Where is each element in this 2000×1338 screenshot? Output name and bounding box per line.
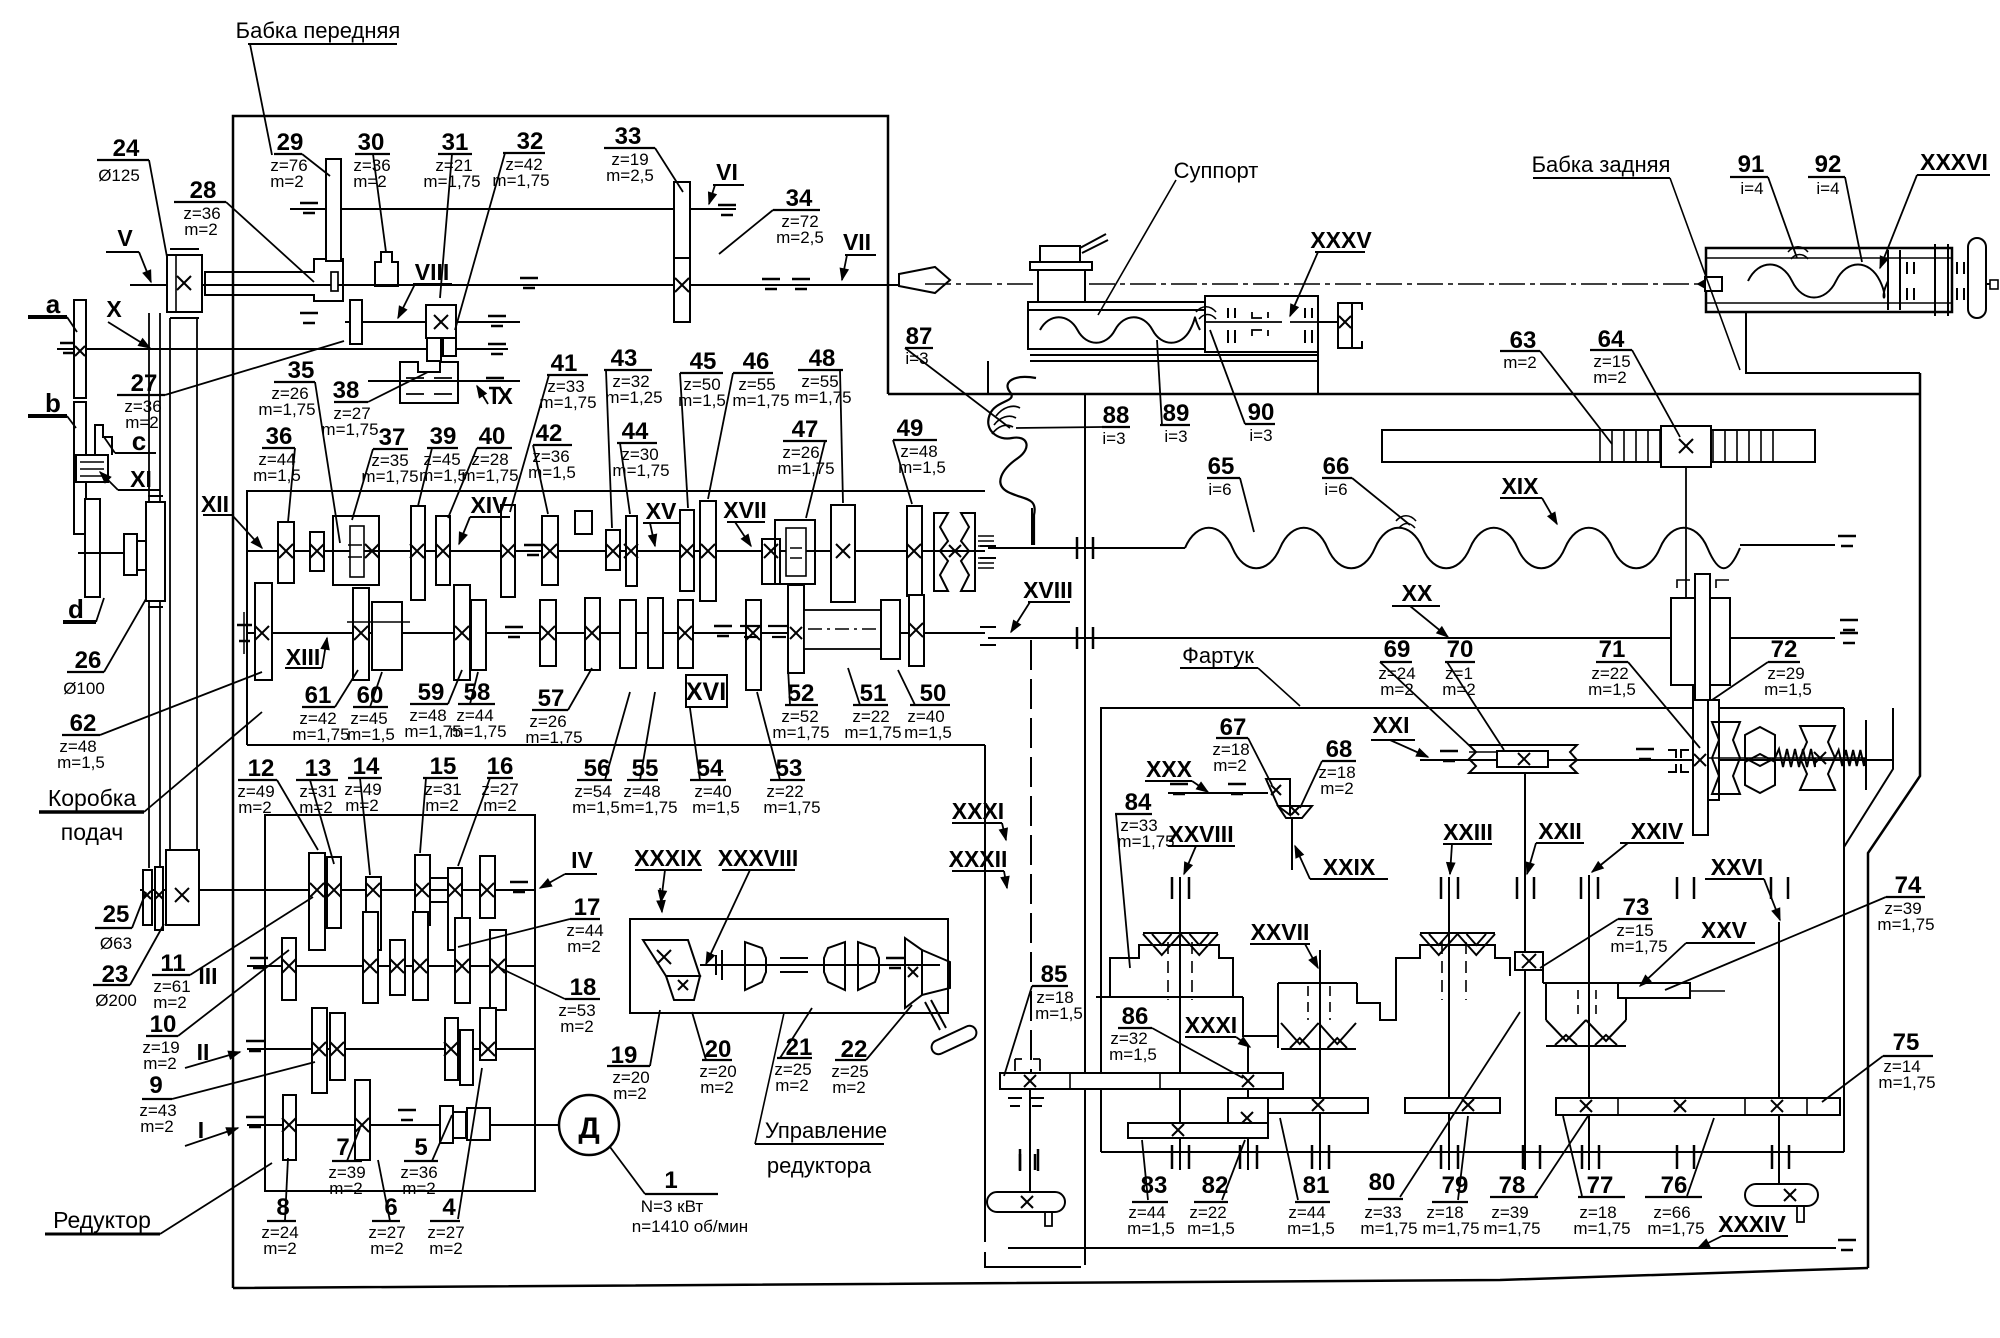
rack teeth left xyxy=(1599,431,1601,461)
svg-text:m=1,75: m=1,75 xyxy=(794,388,851,407)
svg-text:m=2: m=2 xyxy=(270,172,304,191)
svg-text:m=1,75: m=1,75 xyxy=(763,798,820,817)
svg-text:4: 4 xyxy=(442,1194,456,1221)
svg-text:12: 12 xyxy=(248,755,275,782)
bearing VIII right xyxy=(488,315,506,318)
svg-text:47: 47 xyxy=(792,416,819,443)
svg-text:m=1,75: m=1,75 xyxy=(321,420,378,439)
gear 58 xyxy=(471,600,486,670)
svg-text:40: 40 xyxy=(479,423,506,450)
gear 38 block xyxy=(400,362,458,403)
gear 69 line xyxy=(1469,751,1497,753)
svg-text:Суппорт: Суппорт xyxy=(1174,158,1259,183)
svg-text:XIX: XIX xyxy=(1501,473,1539,499)
svg-text:m=1,5: m=1,5 xyxy=(1109,1045,1157,1064)
svg-text:42: 42 xyxy=(536,420,563,447)
svg-text:70: 70 xyxy=(1447,636,1474,663)
gear 39 xyxy=(411,506,425,600)
gear 9 xyxy=(312,1008,327,1093)
carriage right vertical xyxy=(1317,352,1319,393)
svg-text:89: 89 xyxy=(1163,400,1190,427)
svg-text:m=1,5: m=1,5 xyxy=(1588,680,1636,699)
rack bar 63-64 xyxy=(1382,430,1815,462)
bearing XXV bottom xyxy=(1676,1145,1679,1169)
gear 71 tall xyxy=(1693,669,1708,835)
clutch jaw a xyxy=(715,955,717,975)
svg-text:m=2: m=2 xyxy=(140,1117,174,1136)
svg-text:m=2: m=2 xyxy=(483,796,517,815)
tailstock body xyxy=(1706,248,1952,312)
shaft XX xyxy=(988,637,1835,639)
svg-text:m=1,5: m=1,5 xyxy=(1287,1219,1335,1238)
gear 62 xyxy=(255,583,272,680)
svg-text:36: 36 xyxy=(266,423,293,450)
svg-text:27: 27 xyxy=(131,370,158,397)
svg-text:XV: XV xyxy=(646,498,677,524)
rod 81 xyxy=(1268,1098,1368,1113)
shaft label XVI box xyxy=(686,675,727,707)
bearing XXVIII bottom xyxy=(1171,1145,1174,1169)
svg-text:XXXV: XXXV xyxy=(1310,227,1372,253)
svg-text:m=2: m=2 xyxy=(567,937,601,956)
arrow XXXIX target xyxy=(660,888,662,912)
motor coupling xyxy=(467,1108,490,1140)
shaft XVIII lower xyxy=(1029,1089,1031,1192)
tailstock quill lines xyxy=(1706,257,1952,259)
svg-text:m=2: m=2 xyxy=(1442,680,1476,699)
rod 82 box xyxy=(1228,1098,1268,1138)
svg-text:m=2: m=2 xyxy=(184,220,218,239)
shaft XVIII tail xyxy=(1031,508,1033,545)
block XXVII hanging xyxy=(1278,983,1396,1048)
headstock box outline xyxy=(233,116,888,408)
svg-text:m=2: m=2 xyxy=(329,1179,363,1198)
svg-text:77: 77 xyxy=(1587,1172,1614,1199)
bearing XIX right xyxy=(1838,535,1856,538)
svg-text:8: 8 xyxy=(276,1194,289,1221)
bearing III left xyxy=(250,957,268,960)
shaft IV xyxy=(140,889,535,891)
svg-text:16: 16 xyxy=(487,753,514,780)
svg-text:Бабка задняя: Бабка задняя xyxy=(1532,152,1671,177)
rod 85-86 xyxy=(1000,1073,1283,1089)
carriage wave marks 90 xyxy=(1196,307,1216,312)
svg-text:61: 61 xyxy=(305,682,332,709)
svg-text:85: 85 xyxy=(1041,961,1068,988)
svg-text:m=1,5: m=1,5 xyxy=(1035,1004,1083,1023)
svg-text:57: 57 xyxy=(538,685,565,712)
motor leader xyxy=(610,1147,645,1194)
gear 43 xyxy=(606,530,620,570)
gear XX brackets xyxy=(1677,580,1690,588)
bearing X left xyxy=(60,342,78,345)
shaft VII spindle xyxy=(202,284,898,286)
svg-text:80: 80 xyxy=(1369,1169,1396,1196)
svg-text:m=1,75: m=1,75 xyxy=(525,728,582,747)
support bearing caps XIX xyxy=(980,545,996,547)
svg-text:m=1,75: m=1,75 xyxy=(1483,1219,1540,1238)
svg-text:i=6: i=6 xyxy=(1324,480,1347,499)
bearing XII right xyxy=(524,544,542,547)
gear 17 xyxy=(455,918,470,1003)
svg-text:76: 76 xyxy=(1661,1172,1688,1199)
svg-text:52: 52 xyxy=(788,680,815,707)
bearing I mid xyxy=(398,1109,416,1112)
gear 16 xyxy=(448,868,462,950)
svg-text:XXII: XXII xyxy=(1538,818,1581,844)
svg-text:m=2: m=2 xyxy=(775,1076,809,1095)
apron box bottom xyxy=(1101,1151,1844,1153)
bearing XIX shaft left xyxy=(1076,537,1079,559)
feed box right edge xyxy=(984,745,986,1242)
gear 59 xyxy=(454,585,470,680)
shaft XIX left xyxy=(988,547,1185,549)
gear 45 xyxy=(680,510,694,591)
cup gear c xyxy=(858,942,879,990)
svg-text:XXV: XXV xyxy=(1701,917,1748,943)
svg-text:m=1,75: m=1,75 xyxy=(777,459,834,478)
bearing XX right xyxy=(1840,632,1858,635)
svg-text:66: 66 xyxy=(1323,453,1350,480)
svg-text:m=2: m=2 xyxy=(425,796,459,815)
svg-text:m=1,75: m=1,75 xyxy=(1610,937,1667,956)
pedal link xyxy=(925,1002,940,1030)
svg-text:XX: XX xyxy=(1402,580,1433,606)
svg-text:m=2: m=2 xyxy=(832,1078,866,1097)
apron enclosure left edge xyxy=(1084,393,1086,1265)
svg-text:Управление: Управление xyxy=(765,1118,887,1143)
bearing I left xyxy=(246,1116,264,1119)
svg-text:Коробка: Коробка xyxy=(48,785,137,811)
svg-text:XIV: XIV xyxy=(470,492,508,518)
bearing XXVIII top xyxy=(1171,877,1174,899)
bevel 67 xyxy=(1266,779,1290,815)
svg-text:m=2: m=2 xyxy=(238,798,272,817)
tailstock screw mark 91 xyxy=(1788,247,1808,252)
XXXV shaft stub xyxy=(1318,321,1338,323)
svg-text:9: 9 xyxy=(149,1072,162,1099)
svg-text:m=2: m=2 xyxy=(153,993,187,1012)
XXXV coupler xyxy=(1338,303,1352,348)
svg-text:11: 11 xyxy=(160,950,185,977)
tailstock screw wave xyxy=(1748,265,1888,298)
bearing IV left xyxy=(510,881,528,884)
svg-text:XXIX: XXIX xyxy=(1323,854,1376,880)
gear XX block xyxy=(1695,574,1710,700)
shaft XII axis (XIV XV XVII) xyxy=(247,550,985,552)
svg-text:86: 86 xyxy=(1122,1003,1149,1030)
dashed XXVIII xyxy=(1167,942,1169,1000)
gear 49 xyxy=(907,506,922,596)
reducer control box xyxy=(630,919,948,1013)
fangs XXIV xyxy=(1546,1020,1626,1041)
svg-text:c: c xyxy=(132,426,146,456)
svg-text:IV: IV xyxy=(571,847,593,873)
bevel 20 xyxy=(666,976,700,1000)
svg-text:79: 79 xyxy=(1442,1172,1469,1199)
svg-text:90: 90 xyxy=(1248,399,1275,426)
gear 51 xyxy=(881,600,900,659)
svg-text:50: 50 xyxy=(920,680,947,707)
svg-text:m=1,5: m=1,5 xyxy=(898,458,946,477)
pedal xyxy=(929,1024,978,1057)
halfnut hooks xyxy=(1252,312,1268,318)
dashed XXVII xyxy=(1307,986,1309,1020)
bearing XXIII bottom xyxy=(1440,1145,1443,1169)
tailstock plate 2 xyxy=(1934,244,1936,316)
bearing XXV top xyxy=(1676,877,1679,899)
gear 31-32 cluster xyxy=(426,305,456,338)
claw clutch a xyxy=(1712,722,1740,794)
svg-text:XXXVI: XXXVI xyxy=(1920,149,1988,175)
worm 70 inner xyxy=(1497,751,1548,767)
svg-text:i=3: i=3 xyxy=(1102,429,1125,448)
shaft XIX right xyxy=(1740,544,1835,546)
shaft XXVII vertical xyxy=(1319,950,1321,1170)
block 84 step xyxy=(1243,997,1278,1036)
svg-text:i=6: i=6 xyxy=(1208,480,1231,499)
svg-text:m=1,75: m=1,75 xyxy=(1878,1073,1935,1092)
svg-text:51: 51 xyxy=(860,680,887,707)
gear 8 xyxy=(283,1095,296,1160)
gear 11 tall xyxy=(363,912,378,1003)
gear 17m xyxy=(390,940,405,995)
svg-text:XXXIX: XXXIX xyxy=(634,845,702,871)
svg-text:88: 88 xyxy=(1103,402,1130,429)
svg-text:m=1,5: m=1,5 xyxy=(572,798,620,817)
gear 52 xyxy=(788,585,804,673)
svg-text:XXXI: XXXI xyxy=(1185,1012,1237,1038)
svg-text:VIII: VIII xyxy=(415,259,450,285)
gear 29 xyxy=(326,159,341,261)
svg-text:17: 17 xyxy=(574,894,601,921)
svg-text:XXI: XXI xyxy=(1372,712,1409,738)
belt lines xyxy=(148,601,150,868)
svg-text:26: 26 xyxy=(75,647,102,674)
gear 54 xyxy=(678,600,693,668)
pulley 23-25 group xyxy=(143,870,152,925)
gear 33 xyxy=(674,182,690,322)
svg-text:55: 55 xyxy=(632,755,659,782)
belt lines 24-23 xyxy=(169,318,171,850)
svg-text:81: 81 xyxy=(1303,1172,1330,1199)
shaft IX xyxy=(368,380,520,382)
clutch hatch marks xyxy=(978,535,994,537)
feed box bottom edge xyxy=(247,744,985,746)
svg-text:14: 14 xyxy=(353,753,380,780)
change gear d xyxy=(85,499,100,597)
worm 87 wave xyxy=(988,377,1036,545)
gear 73 box xyxy=(1515,952,1543,970)
shaft III xyxy=(247,965,535,967)
svg-text:i=4: i=4 xyxy=(1816,179,1839,198)
wave XIX xyxy=(1185,528,1740,569)
svg-text:m=1,75: m=1,75 xyxy=(449,722,506,741)
spring XXV a xyxy=(1775,749,1815,767)
svg-text:91: 91 xyxy=(1738,151,1765,178)
gear 64 box xyxy=(1661,426,1711,467)
tailstock quill tip xyxy=(1705,277,1722,291)
svg-text:71: 71 xyxy=(1599,636,1626,663)
rod1 bearing dashes xyxy=(1008,1097,1022,1099)
dashed XXIV xyxy=(1577,990,1579,1016)
gear 36 xyxy=(278,522,294,583)
svg-text:m=2: m=2 xyxy=(1593,368,1627,387)
block XXIV hanging xyxy=(1543,970,1628,1020)
svg-text:IX: IX xyxy=(491,383,513,409)
shaft XXIX vertical xyxy=(1291,818,1293,870)
svg-text:Ø63: Ø63 xyxy=(100,934,132,953)
svg-text:VI: VI xyxy=(716,159,738,185)
rack teeth right xyxy=(1712,431,1714,461)
bearing XIII left xyxy=(237,624,252,627)
svg-text:29: 29 xyxy=(277,129,304,156)
svg-text:редуктора: редуктора xyxy=(767,1153,872,1178)
carriage bottom lines xyxy=(1030,354,1318,356)
gear 10 xyxy=(282,938,296,1000)
shaft VI xyxy=(290,208,736,210)
svg-text:58: 58 xyxy=(464,679,491,706)
gear 15 bridge xyxy=(430,877,448,879)
apron inner right edge xyxy=(1843,847,1845,1152)
halfnut marks b xyxy=(1304,308,1306,318)
bearing II left xyxy=(246,1040,264,1043)
svg-text:XXIII: XXIII xyxy=(1443,819,1493,845)
apron box xyxy=(1101,708,1844,1152)
bearing VI right xyxy=(718,204,736,207)
clutch 47 block xyxy=(775,520,815,584)
svg-text:m=1,25: m=1,25 xyxy=(605,388,662,407)
cross XXV xyxy=(1814,752,1826,764)
tailstock handwheel xyxy=(1968,238,1986,318)
shaft XXII vertical xyxy=(1524,773,1526,1170)
gear 61 xyxy=(353,588,369,680)
svg-text:m=1,5: m=1,5 xyxy=(904,723,952,742)
tool slide wide rect xyxy=(1030,262,1092,270)
svg-text:XVIII: XVIII xyxy=(1023,577,1073,603)
svg-text:m=1,75: m=1,75 xyxy=(461,466,518,485)
motor circle xyxy=(559,1095,619,1155)
svg-text:XXXIV: XXXIV xyxy=(1718,1211,1786,1237)
gear 28 block xyxy=(205,259,343,301)
svg-text:46: 46 xyxy=(743,348,770,375)
svg-text:m=2: m=2 xyxy=(263,1239,297,1258)
svg-text:m=2: m=2 xyxy=(1213,756,1247,775)
bearing XIII mid xyxy=(505,626,523,629)
cup gear b xyxy=(824,942,845,990)
block 84 pedestal xyxy=(1110,945,1233,997)
bevel 68 gear xyxy=(1278,806,1312,818)
gear 57 xyxy=(585,598,600,670)
support under carriage xyxy=(987,361,989,395)
svg-text:III: III xyxy=(198,963,217,989)
svg-text:m=1,75: m=1,75 xyxy=(539,393,596,412)
svg-text:VII: VII xyxy=(843,229,871,255)
gear 71b xyxy=(1708,700,1719,800)
bearing XVIII b xyxy=(1019,1149,1022,1171)
worm 87 arc marks xyxy=(996,406,1020,416)
svg-text:V: V xyxy=(117,225,133,251)
svg-text:87: 87 xyxy=(906,323,933,350)
svg-text:m=1,75: m=1,75 xyxy=(1647,1219,1704,1238)
shaft X xyxy=(57,348,508,350)
svg-text:i=3: i=3 xyxy=(1164,427,1187,446)
svg-text:XXXII: XXXII xyxy=(949,846,1008,872)
gear 55 xyxy=(648,598,663,668)
svg-text:37: 37 xyxy=(379,424,406,451)
svg-text:m=1,75: m=1,75 xyxy=(772,723,829,742)
hex gear XXV a xyxy=(1745,727,1775,766)
coupling 5 xyxy=(440,1106,453,1143)
idler shaft xyxy=(78,552,124,554)
svg-text:5: 5 xyxy=(414,1134,427,1161)
svg-text:34: 34 xyxy=(786,185,813,212)
svg-text:m=1,75: m=1,75 xyxy=(1573,1219,1630,1238)
gear mid x xyxy=(762,539,780,584)
apron box right edge xyxy=(1843,708,1845,847)
capsule hook 2 xyxy=(1045,1212,1052,1226)
svg-text:d: d xyxy=(68,594,84,624)
bearing XXII top xyxy=(1516,877,1519,899)
change gear b xyxy=(74,402,86,534)
svg-text:69: 69 xyxy=(1384,636,1411,663)
svg-text:10: 10 xyxy=(150,1011,177,1038)
svg-text:XVII: XVII xyxy=(723,497,766,523)
svg-text:m=1,75: m=1,75 xyxy=(492,171,549,190)
svg-text:31: 31 xyxy=(442,129,469,156)
feed box right edge lower xyxy=(985,1252,1081,1267)
support bearing caps XX xyxy=(980,626,996,628)
svg-text:15: 15 xyxy=(430,753,457,780)
gear 12 xyxy=(309,853,325,950)
svg-text:83: 83 xyxy=(1141,1172,1168,1199)
svg-text:X: X xyxy=(106,296,122,322)
bearing VIII left xyxy=(300,312,318,315)
gear 17b xyxy=(413,912,428,1000)
svg-text:XXVIII: XXVIII xyxy=(1168,821,1233,847)
svg-text:m=2: m=2 xyxy=(613,1084,647,1103)
svg-text:m=1,5: m=1,5 xyxy=(528,463,576,482)
svg-text:Редуктор: Редуктор xyxy=(53,1207,151,1233)
gear 18 xyxy=(490,930,506,1010)
gear 5c xyxy=(460,1030,473,1085)
bearing XX shaft left xyxy=(1076,627,1079,649)
svg-text:m=1,75: m=1,75 xyxy=(612,461,669,480)
svg-text:45: 45 xyxy=(690,348,717,375)
dashed XXIII xyxy=(1441,942,1443,1000)
shaft XXIV vertical xyxy=(1588,875,1590,1170)
shaft VIII xyxy=(345,321,520,323)
svg-text:XXVI: XXVI xyxy=(1711,854,1763,880)
svg-text:m=2: m=2 xyxy=(1503,353,1537,372)
svg-text:m=1,5: m=1,5 xyxy=(347,725,395,744)
bevel 19 xyxy=(643,940,700,976)
chevron crown XXIII xyxy=(1420,932,1495,934)
bearing control xyxy=(886,957,904,960)
bearing VII c xyxy=(792,278,810,281)
gear 57b xyxy=(540,600,556,666)
carriage body xyxy=(1028,310,1318,349)
svg-text:подач: подач xyxy=(61,819,123,845)
svg-text:a: a xyxy=(46,289,61,319)
svg-text:XXIV: XXIV xyxy=(1631,818,1684,844)
svg-text:59: 59 xyxy=(418,679,445,706)
gear small a xyxy=(310,532,324,571)
cup gear a xyxy=(745,942,766,990)
bearing XXII bottom2 xyxy=(1522,1145,1525,1169)
tailstock stub xyxy=(1986,283,1998,285)
carriage wave xyxy=(1040,317,1200,343)
